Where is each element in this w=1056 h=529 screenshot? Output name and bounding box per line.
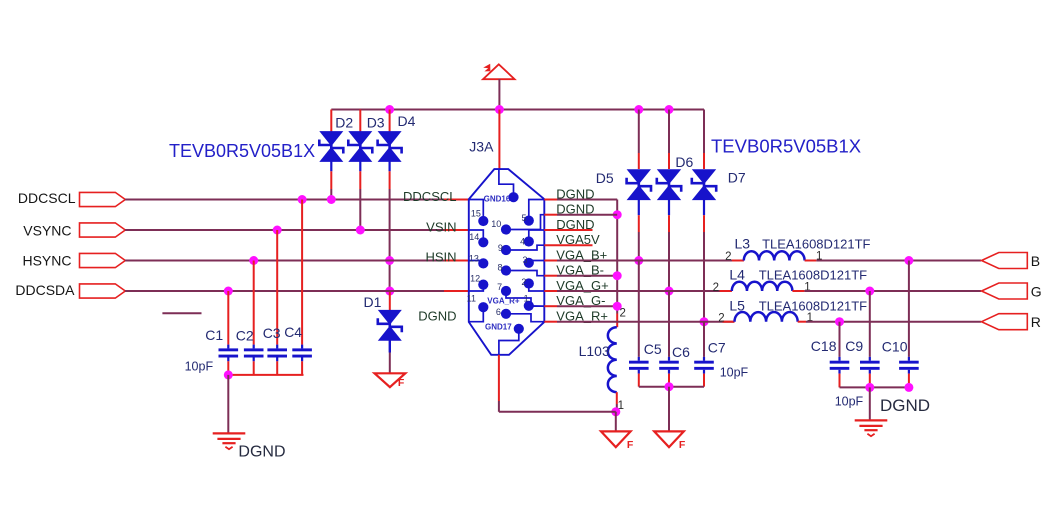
TVS diode D1: [378, 310, 402, 341]
inductor L3: [744, 251, 805, 260]
J3A pin 7 wire: [506, 291, 544, 306]
svg-text:7: 7: [497, 282, 502, 292]
svg-text:DDCSCL: DDCSCL: [403, 189, 456, 204]
wire C1 to bottom bus: [227, 361, 229, 375]
J3A pin 11 wire: [469, 307, 484, 322]
wire L103 to ground: [615, 412, 617, 432]
junction C4 on DDCSCL row: [298, 195, 307, 204]
svg-text:L103: L103: [579, 343, 610, 359]
svg-text:D2: D2: [335, 114, 353, 130]
J3A pin 10 wire: [506, 215, 544, 230]
junction D5 on VGA_B+ row: [634, 256, 643, 265]
wire VGA5V row stub: [544, 244, 592, 246]
capacitor C6: [659, 357, 679, 374]
wire C7 column: [703, 322, 705, 357]
wire J3A bottom horizontal: [499, 411, 616, 413]
svg-text:F: F: [398, 377, 405, 389]
svg-text:G: G: [1031, 283, 1042, 299]
wire D2 bottom stub: [330, 161, 332, 200]
wire bus to D7: [703, 110, 705, 170]
junction D4 at HSIN: [385, 256, 394, 265]
wire C5 to bus: [638, 374, 640, 387]
svg-text:TEVB0R5V05B1X: TEVB0R5V05B1X: [711, 136, 861, 157]
svg-text:VSYNC: VSYNC: [23, 222, 71, 238]
wire to L103 pin2: [616, 314, 618, 328]
wire top bus: [331, 109, 704, 111]
svg-text:14: 14: [469, 232, 479, 242]
svg-text:TLEA1608D121TF: TLEA1608D121TF: [759, 299, 867, 314]
capacitor C3: [267, 345, 287, 362]
wire C1-C4 bottom bus: [228, 374, 303, 376]
J3A pin 14 wire: [469, 230, 484, 242]
wire C5-C7 bottom bus: [639, 386, 704, 388]
capacitor C2: [244, 345, 264, 362]
wire L5 to R flag: [798, 321, 981, 323]
svg-text:TLEA1608D121TF: TLEA1608D121TF: [762, 237, 870, 252]
port flag R: [982, 314, 1028, 330]
svg-text:8: 8: [498, 263, 503, 273]
TVS diode D6: [657, 169, 681, 200]
svg-text:L5: L5: [729, 298, 745, 314]
TVS diode D2: [319, 131, 343, 162]
capacitor C7: [694, 357, 714, 374]
J3A pin 6 wire: [506, 314, 544, 322]
svg-text:2: 2: [620, 307, 626, 319]
svg-text:C2: C2: [236, 328, 254, 344]
wire D6 bottom: [668, 199, 670, 291]
connector J3A outline: [469, 169, 545, 355]
junction C1 on DDCSDA row: [224, 287, 233, 296]
port flag HSYNC: [80, 253, 126, 267]
inductor L4: [732, 282, 793, 291]
ground F under L103: [601, 431, 631, 447]
wire VGA_B- row: [544, 275, 617, 277]
port flag DDCSDA: [80, 284, 126, 298]
junction DGND2 on vertical: [613, 210, 622, 219]
ground DGND right: [855, 420, 888, 436]
svg-text:2: 2: [713, 282, 719, 294]
TVS diode D7: [692, 169, 716, 200]
svg-text:5: 5: [522, 213, 527, 223]
junction C3 on VSYNC row: [273, 226, 282, 235]
svg-text:10pF: 10pF: [835, 394, 864, 408]
wire VGA_B+ row: [544, 260, 744, 262]
capacitor C9: [860, 357, 880, 374]
inductor L103: [608, 327, 617, 392]
wire J3A bottom: [498, 355, 500, 412]
power symbol VGA5V_SHIELD: [483, 64, 515, 79]
junction C6 bottom bus: [665, 382, 674, 391]
svg-text:F: F: [679, 439, 686, 451]
junction C9 bottom bus: [865, 383, 874, 392]
wire C7 to bus: [703, 374, 705, 387]
wire C6 to bus: [668, 374, 670, 387]
svg-text:TEVB0R5V05B1X: TEVB0R5V05B1X: [169, 141, 315, 161]
J3A pin numbers: [467, 209, 529, 317]
junction C1 bottom bus: [224, 370, 233, 379]
wire VSYNC row: [125, 229, 469, 231]
junction C10 on VGA_B+ row: [904, 256, 913, 265]
wire C2 column: [253, 261, 255, 345]
capacitor C4: [292, 345, 312, 362]
wire DDCSCL row: [125, 199, 469, 201]
wire C6 to ground: [668, 387, 670, 432]
wire DGND1 row: [544, 199, 617, 201]
J3A pin 9 wire: [506, 245, 544, 250]
wire DGND vertical: [616, 200, 618, 314]
junction D2 on DDCSCL row: [327, 195, 336, 204]
svg-text:D4: D4: [398, 113, 416, 129]
junction L103 bottom: [611, 407, 620, 416]
junction C9 on VGA_G+ row: [865, 287, 874, 296]
svg-text:13: 13: [469, 254, 479, 264]
junction D6 on VGA_G+ row: [665, 287, 674, 296]
J3A pin 3 wire: [529, 261, 545, 263]
junction C2 on HSYNC row: [249, 256, 258, 265]
wire C18 column: [839, 322, 841, 357]
svg-text:10: 10: [491, 219, 501, 229]
svg-text:2: 2: [725, 251, 731, 263]
wire D4 bottom stub: [389, 161, 391, 261]
wire DDCSDA to D1 top: [389, 291, 391, 311]
junction bus at power: [495, 105, 504, 114]
ground F under D1: [375, 373, 406, 387]
J3A pin 2 wire: [529, 284, 545, 292]
svg-text:10pF: 10pF: [720, 365, 749, 379]
wire bus down to J3A top: [498, 110, 500, 170]
svg-text:HSIN: HSIN: [425, 250, 456, 265]
J3A pin GND17 wire: [499, 329, 519, 355]
J3A pin 5 wire: [529, 200, 545, 221]
svg-text:B: B: [1031, 253, 1040, 269]
junction C18 on VGA_R+ row: [835, 317, 844, 326]
wire L4 to G flag: [792, 290, 981, 292]
svg-text:D7: D7: [728, 169, 746, 185]
svg-text:D5: D5: [596, 170, 614, 186]
svg-text:GND16: GND16: [484, 195, 511, 204]
wire DDCSDA row: [125, 290, 469, 292]
svg-text:VSIN: VSIN: [426, 220, 456, 235]
ground F under C6: [654, 431, 684, 447]
svg-text:C4: C4: [284, 324, 302, 340]
J3A pin 12 wire: [469, 285, 484, 291]
wire L103 pin1: [616, 392, 618, 412]
svg-text:1: 1: [524, 294, 529, 304]
wire C9 to bus: [869, 374, 871, 388]
junction bus at D4: [385, 105, 394, 114]
wire VGA_G+ row: [544, 290, 732, 292]
junction C10 bottom bus: [904, 383, 913, 392]
capacitor C5: [629, 357, 649, 374]
svg-text:3: 3: [523, 255, 528, 265]
port flag DDCSCL: [80, 192, 126, 206]
junction VGA_G- on vertical: [613, 302, 622, 311]
J3A pin GND16 wire: [499, 169, 514, 197]
wire C4 column: [301, 200, 303, 345]
svg-text:C5: C5: [644, 341, 662, 357]
wire VGA_R+ row: [544, 321, 734, 323]
svg-text:DGND: DGND: [880, 396, 930, 415]
svg-text:DGND: DGND: [238, 443, 285, 460]
wire C5 column: [638, 261, 640, 357]
svg-text:C10: C10: [882, 338, 908, 354]
wire C3 to bottom bus: [276, 361, 278, 375]
ground DGND left: [213, 433, 246, 449]
wire D7 bottom: [703, 199, 705, 322]
svg-text:D6: D6: [675, 154, 693, 170]
J3A pin circles: [478, 192, 534, 334]
wire DGND3 row stub: [544, 229, 592, 231]
capacitor C10: [899, 357, 919, 374]
wire C9 to DGND right: [869, 387, 871, 420]
wire C10 to bus: [908, 374, 910, 388]
svg-text:R: R: [1031, 314, 1041, 330]
svg-text:C3: C3: [263, 325, 281, 341]
svg-text:GND17: GND17: [485, 323, 512, 332]
J3A pin 1 wire: [529, 305, 545, 307]
svg-text:C9: C9: [845, 338, 863, 354]
capacitor C18: [830, 357, 850, 374]
wire VGA_G- row: [544, 305, 617, 307]
wire C10 column: [908, 261, 910, 357]
wire bus to D4 top: [389, 110, 391, 133]
svg-text:D3: D3: [367, 114, 385, 130]
junction bus at D5: [634, 105, 643, 114]
svg-text:C18: C18: [811, 338, 837, 354]
wire D4 column HSIN to DDCSDA: [389, 261, 391, 292]
svg-text:12: 12: [470, 274, 480, 284]
wire to DGND left: [227, 375, 229, 434]
TVS diode D5: [627, 169, 651, 200]
J3A pin 13 wire: [469, 261, 484, 264]
wire D5 bottom: [638, 199, 640, 260]
wire C18 to bus: [839, 374, 841, 388]
port flag G: [982, 283, 1028, 299]
junction D3 on VSYNC row: [356, 226, 365, 235]
svg-text:4: 4: [520, 237, 525, 247]
junction D4-D1 at DDCSDA: [385, 287, 394, 296]
wire bus to D2 top: [330, 110, 332, 133]
wire DGND2 row: [544, 214, 617, 216]
TVS diode D3: [348, 131, 372, 162]
wire C9 column: [869, 291, 871, 357]
junction VGA_B- on vertical: [613, 271, 622, 280]
svg-text:2: 2: [718, 313, 724, 325]
svg-text:9: 9: [498, 243, 503, 253]
port flag VSYNC: [80, 223, 126, 237]
wire bus to D3 top: [359, 110, 361, 133]
svg-text:TLEA1608D121TF: TLEA1608D121TF: [759, 268, 867, 283]
wire C3 column: [276, 230, 278, 345]
svg-text:2: 2: [521, 277, 526, 287]
svg-text:D1: D1: [364, 294, 382, 310]
wire bus to D6: [668, 110, 670, 170]
wire C6 column: [668, 291, 670, 357]
svg-text:F: F: [627, 439, 634, 451]
svg-text:VGA_R+: VGA_R+: [487, 296, 520, 305]
J3A pin 8 wire: [506, 271, 544, 276]
wire C1 column: [227, 291, 229, 345]
J3A pin 4 wire: [529, 230, 545, 242]
wire C18-C10 bottom bus: [840, 386, 909, 388]
svg-text:10pF: 10pF: [185, 360, 214, 374]
wire C2 to bottom bus: [253, 361, 255, 375]
svg-text:HSYNC: HSYNC: [22, 253, 71, 269]
J3A pin 15 wire: [469, 200, 484, 222]
wire D3 bottom stub: [359, 161, 361, 230]
svg-text:15: 15: [471, 209, 481, 219]
port flag B: [982, 253, 1028, 269]
inductor L5: [735, 312, 798, 322]
svg-text:DDCSCL: DDCSCL: [18, 190, 76, 206]
wire power to bus: [498, 79, 500, 110]
TVS diode D4: [378, 131, 402, 162]
junction D7 on VGA_R+ row: [700, 317, 709, 326]
capacitor C1: [219, 345, 239, 362]
svg-text:L4: L4: [729, 267, 745, 283]
wire bus to D5: [638, 110, 640, 170]
svg-text:C7: C7: [708, 339, 726, 355]
svg-text:C6: C6: [672, 344, 690, 360]
wire D1 bottom: [389, 340, 391, 373]
svg-text:DDCSDA: DDCSDA: [15, 282, 75, 298]
svg-text:6: 6: [496, 307, 501, 317]
svg-text:J3A: J3A: [469, 139, 494, 155]
svg-text:DGND: DGND: [418, 309, 456, 324]
wire C4 to bottom bus: [301, 361, 303, 375]
svg-text:L3: L3: [735, 236, 751, 252]
wire L3 to B flag: [805, 260, 982, 262]
svg-text:C1: C1: [205, 327, 223, 343]
junction bus at D6: [665, 105, 674, 114]
wire HSYNC row: [125, 260, 469, 262]
wire stub segment: [162, 312, 201, 314]
svg-text:11: 11: [467, 293, 476, 303]
